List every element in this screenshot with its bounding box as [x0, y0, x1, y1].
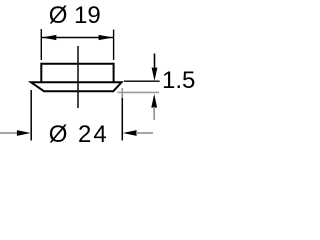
svg-text:1.5: 1.5 — [162, 67, 195, 94]
dimension Ø24: right stub with arrowhead — [123, 130, 137, 136]
dimension Ø19: left arrowhead — [42, 35, 57, 40]
svg-text:Ø 19: Ø 19 — [49, 2, 101, 29]
dimension 1.5: upper leader with down arrowhead — [154, 54, 156, 70]
dimension 1.5: lower extension line (from flange bottom) — [118, 91, 160, 93]
dimension Ø19: right extension line — [113, 30, 115, 61]
center line — [77, 46, 79, 108]
dimension Ø24: right extension line — [121, 88, 123, 98]
dimension Ø19: dimension line — [42, 37, 113, 39]
dimension 1.5: upper extension line (from flange top) — [124, 80, 160, 82]
dimension Ø19: right arrowhead — [99, 35, 114, 40]
part body (cylinder Ø19, side view) — [41, 64, 113, 83]
flange (Ø24, thickness 1.5, chamfered rim) — [31, 82, 122, 91]
dimension Ø19: left extension line — [40, 29, 42, 60]
svg-text:Ø 24: Ø 24 — [49, 121, 109, 148]
dimension Ø24: left extension line — [30, 90, 32, 141]
dimension Ø24: left stub with arrowhead — [0, 132, 19, 134]
dimension 1.5: lower leader with up arrowhead — [151, 94, 157, 108]
